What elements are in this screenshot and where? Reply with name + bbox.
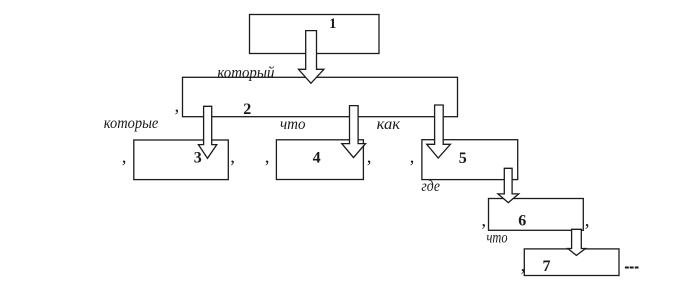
svg-text:,: , — [175, 96, 180, 117]
svg-text:2: 2 — [243, 101, 251, 118]
svg-text:,: , — [230, 146, 235, 167]
box 2 — [183, 77, 458, 116]
dash 3 after box7 — [635, 267, 639, 269]
box 6 — [489, 199, 584, 231]
arrow box2 to box4 — [342, 106, 366, 158]
svg-text:4: 4 — [313, 149, 321, 166]
arrow box2 to box5 — [427, 105, 451, 158]
box 3 — [134, 140, 229, 180]
svg-text:,: , — [481, 210, 486, 231]
box 7 — [524, 249, 619, 276]
svg-text:,: , — [585, 210, 590, 231]
svg-text:которые: которые — [104, 115, 159, 132]
svg-text:как: как — [377, 116, 401, 133]
svg-text:,: , — [367, 146, 372, 167]
svg-text:,: , — [122, 146, 127, 167]
arrow box1 to box2 — [299, 31, 324, 84]
svg-text:,: , — [410, 146, 415, 167]
svg-text:что: что — [487, 230, 508, 247]
arrow box6 to box7 — [568, 229, 586, 255]
box 5 — [422, 140, 518, 180]
svg-text:7: 7 — [543, 258, 551, 275]
svg-text:3: 3 — [194, 150, 202, 167]
svg-text:5: 5 — [459, 150, 467, 167]
dash 1 after box7 — [625, 267, 629, 269]
svg-text:6: 6 — [518, 213, 526, 230]
svg-text:,: , — [521, 255, 526, 276]
svg-text:который: который — [217, 65, 274, 82]
svg-text:что: что — [280, 116, 306, 133]
arrow box5 to box6 — [498, 168, 519, 202]
dash 2 after box7 — [630, 267, 634, 269]
svg-text:,: , — [265, 146, 270, 167]
box 4 — [276, 140, 363, 180]
arrow box2 to box3 — [198, 106, 216, 158]
svg-text:1: 1 — [329, 16, 336, 32]
svg-text:где: где — [421, 178, 440, 195]
box 1 — [250, 15, 380, 54]
